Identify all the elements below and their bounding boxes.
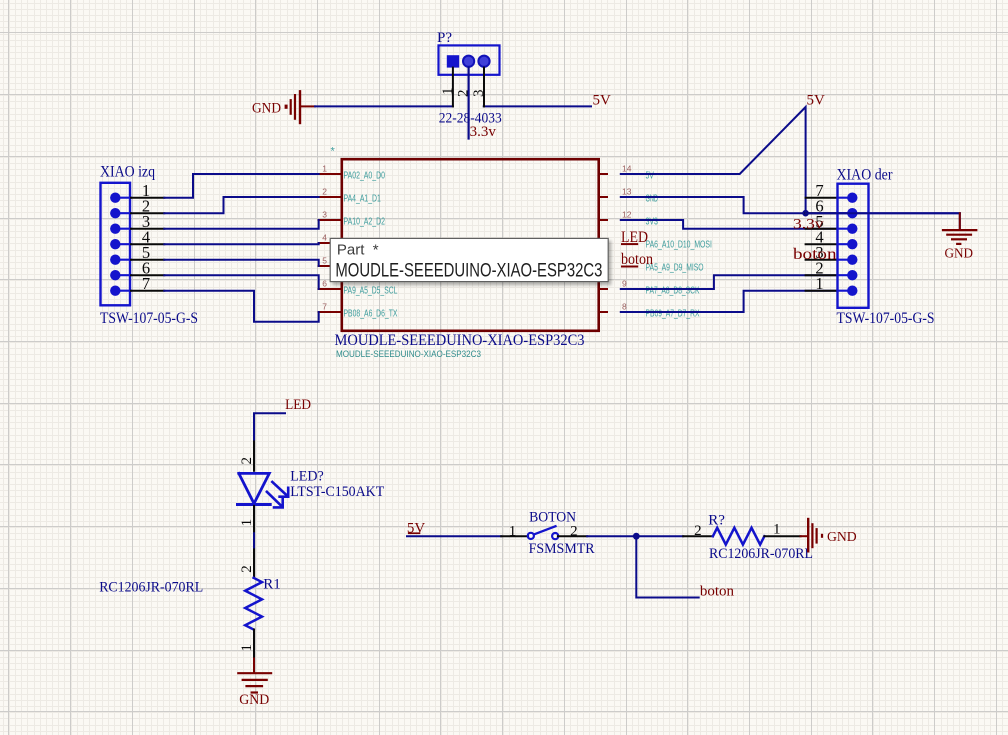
svg-text:TSW-107-05-G-S: TSW-107-05-G-S: [100, 310, 198, 327]
svg-text:14: 14: [622, 164, 632, 174]
svg-text:PB09_A7_D7_RX: PB09_A7_D7_RX: [646, 309, 700, 320]
svg-text:GND: GND: [827, 530, 857, 545]
svg-text:1: 1: [773, 522, 781, 538]
svg-text:1: 1: [322, 164, 327, 174]
svg-text:1: 1: [239, 519, 255, 527]
svg-text:1: 1: [509, 523, 517, 539]
svg-text:2: 2: [239, 457, 255, 465]
svg-text:R1: R1: [263, 576, 281, 592]
svg-text:LED: LED: [285, 397, 311, 413]
svg-text:PA5_A9_D9_MISO: PA5_A9_D9_MISO: [646, 263, 704, 274]
svg-text:1: 1: [239, 644, 255, 652]
svg-text:MOUDLE-SEEEDUINO-XIAO-ESP32C3: MOUDLE-SEEEDUINO-XIAO-ESP32C3: [335, 332, 585, 349]
svg-text:MOUDLE-SEEEDUINO-XIAO-ESP32C3: MOUDLE-SEEEDUINO-XIAO-ESP32C3: [336, 349, 481, 360]
svg-text:*: *: [331, 146, 336, 158]
svg-text:FSMSMTR: FSMSMTR: [529, 541, 595, 557]
svg-text:5V: 5V: [646, 171, 655, 182]
svg-text:PA9_A5_D5_SCL: PA9_A5_D5_SCL: [344, 286, 398, 297]
svg-text:7: 7: [142, 274, 150, 293]
svg-text:9: 9: [622, 279, 627, 289]
svg-text:PA4_A1_D1: PA4_A1_D1: [344, 194, 382, 205]
svg-text:4: 4: [322, 233, 327, 243]
svg-text:XIAO der: XIAO der: [837, 166, 894, 183]
svg-text:GND: GND: [252, 101, 281, 117]
svg-text:TSW-107-05-G-S: TSW-107-05-G-S: [837, 310, 935, 327]
svg-text:LED?: LED?: [290, 469, 324, 485]
svg-text:RC1206JR-070RL: RC1206JR-070RL: [709, 546, 813, 562]
svg-text:3.3v: 3.3v: [793, 217, 824, 233]
svg-text:1: 1: [440, 88, 456, 96]
svg-text:PA6_A10_D10_MOSI: PA6_A10_D10_MOSI: [646, 240, 712, 251]
svg-text:PA10_A2_D2: PA10_A2_D2: [344, 217, 386, 228]
svg-text:GND: GND: [646, 194, 658, 205]
svg-text:2: 2: [322, 187, 327, 197]
svg-text:3.3v: 3.3v: [470, 124, 497, 140]
svg-text:1: 1: [815, 274, 823, 293]
svg-text:3V3: 3V3: [646, 217, 659, 228]
svg-text:8: 8: [622, 302, 627, 312]
svg-text:2: 2: [456, 90, 472, 98]
svg-text:13: 13: [622, 187, 632, 197]
svg-text:RC1206JR-070RL: RC1206JR-070RL: [99, 580, 203, 596]
svg-text:5V: 5V: [807, 93, 826, 109]
svg-text:P?: P?: [437, 30, 452, 46]
svg-text:MOUDLE-SEEEDUINO-XIAO-ESP32C3: MOUDLE-SEEEDUINO-XIAO-ESP32C3: [335, 260, 602, 281]
svg-text:XIAO izq: XIAO izq: [100, 164, 155, 181]
svg-text:6: 6: [322, 279, 327, 289]
svg-text:boton: boton: [793, 246, 837, 263]
svg-text:PA7_A8_D8_SCK: PA7_A8_D8_SCK: [646, 286, 700, 297]
svg-text:12: 12: [622, 210, 632, 220]
svg-text:2: 2: [694, 523, 702, 539]
svg-text:7: 7: [322, 302, 327, 312]
svg-text:3: 3: [471, 90, 487, 98]
svg-text:5: 5: [322, 256, 327, 266]
svg-text:PB08_A6_D6_TX: PB08_A6_D6_TX: [344, 309, 398, 320]
svg-text:Part *: Part *: [337, 242, 379, 259]
svg-text:5V: 5V: [593, 93, 612, 109]
svg-text:LTST-C150AKT: LTST-C150AKT: [290, 484, 384, 500]
svg-text:GND: GND: [239, 692, 269, 708]
svg-text:boton: boton: [700, 584, 735, 600]
svg-text:2: 2: [239, 565, 255, 573]
svg-text:GND: GND: [945, 246, 974, 261]
svg-text:3: 3: [322, 210, 327, 220]
svg-text:PA02_A0_D0: PA02_A0_D0: [344, 171, 386, 182]
